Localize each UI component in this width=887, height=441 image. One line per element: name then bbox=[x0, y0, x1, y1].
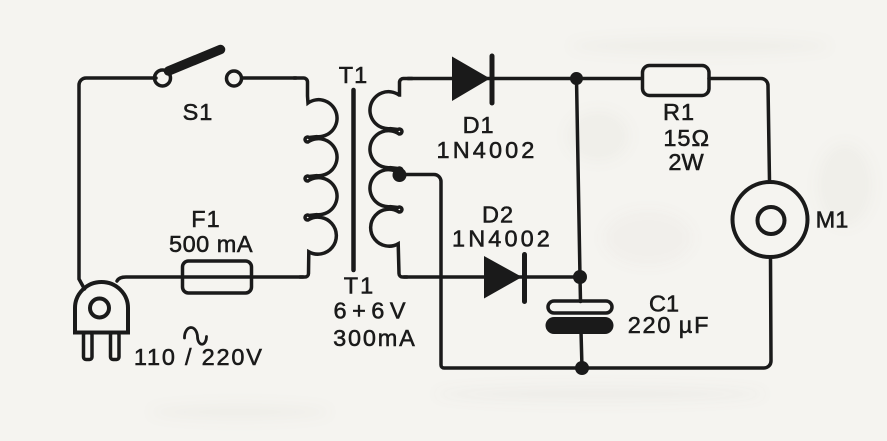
switch S1 pole circle bbox=[155, 70, 171, 86]
motor M1 outer circle bbox=[733, 182, 808, 257]
wire center tap to bottom rail to motor bottom bbox=[404, 175, 771, 369]
svg-text:15Ω: 15Ω bbox=[663, 125, 710, 151]
svg-text:1N4002: 1N4002 bbox=[452, 225, 553, 251]
junction dot top rail bbox=[570, 72, 583, 85]
svg-text:T1: T1 bbox=[339, 62, 368, 88]
wire top-left from switch to left rail and down to plug bbox=[79, 78, 156, 289]
svg-text:D2: D2 bbox=[482, 202, 514, 228]
wire positive rail down through C1 bbox=[577, 79, 583, 369]
wire resistor to motor top bbox=[709, 79, 770, 182]
resistor R1 body bbox=[643, 66, 710, 96]
svg-text:S1: S1 bbox=[183, 99, 214, 125]
diode D2 bbox=[484, 255, 525, 302]
svg-text:R1: R1 bbox=[663, 99, 695, 125]
svg-text:M1: M1 bbox=[816, 207, 849, 233]
svg-text:300mA: 300mA bbox=[333, 325, 416, 351]
switch S1 throw circle bbox=[227, 71, 242, 86]
capacitor C1 top plate bbox=[548, 301, 612, 313]
svg-text:T1: T1 bbox=[344, 273, 375, 299]
transformer T1 primary winding bbox=[294, 78, 337, 277]
AC sine symbol bbox=[184, 327, 206, 344]
svg-text:F1: F1 bbox=[191, 206, 220, 232]
junction dot D2 cathode bbox=[573, 270, 587, 284]
wire switch to transformer primary bbox=[243, 76, 296, 80]
wire plug to fuse to primary bottom bbox=[117, 277, 303, 281]
junction dot center tap bbox=[393, 168, 407, 182]
plug prong left bbox=[84, 333, 93, 360]
fuse F1 body bbox=[183, 261, 252, 293]
plug prong right bbox=[111, 333, 120, 360]
paper smudges bbox=[150, 37, 873, 420]
svg-text:1N4002: 1N4002 bbox=[437, 137, 538, 163]
svg-text:6+6V: 6+6V bbox=[334, 298, 412, 324]
diode D1 bbox=[452, 56, 492, 103]
transformer T1 secondary winding bbox=[370, 79, 412, 278]
svg-text:110 / 220V: 110 / 220V bbox=[134, 344, 264, 370]
junction dot bottom rail bbox=[575, 361, 589, 375]
svg-text:D1: D1 bbox=[463, 112, 495, 138]
motor M1 inner circle bbox=[758, 207, 785, 234]
plug body bbox=[75, 282, 128, 333]
svg-text:2W: 2W bbox=[668, 149, 704, 175]
wire secondary top through D1 to resistor bbox=[408, 77, 642, 81]
transformer T1 core bbox=[351, 90, 356, 270]
svg-text:220 µF: 220 µF bbox=[628, 312, 711, 338]
plug hole bbox=[90, 299, 109, 318]
switch S1 lever bbox=[169, 50, 221, 72]
capacitor C1 bottom plate bbox=[546, 317, 614, 334]
svg-text:500 mA: 500 mA bbox=[169, 231, 253, 257]
wire secondary bottom through D2 to junction bbox=[404, 275, 583, 279]
